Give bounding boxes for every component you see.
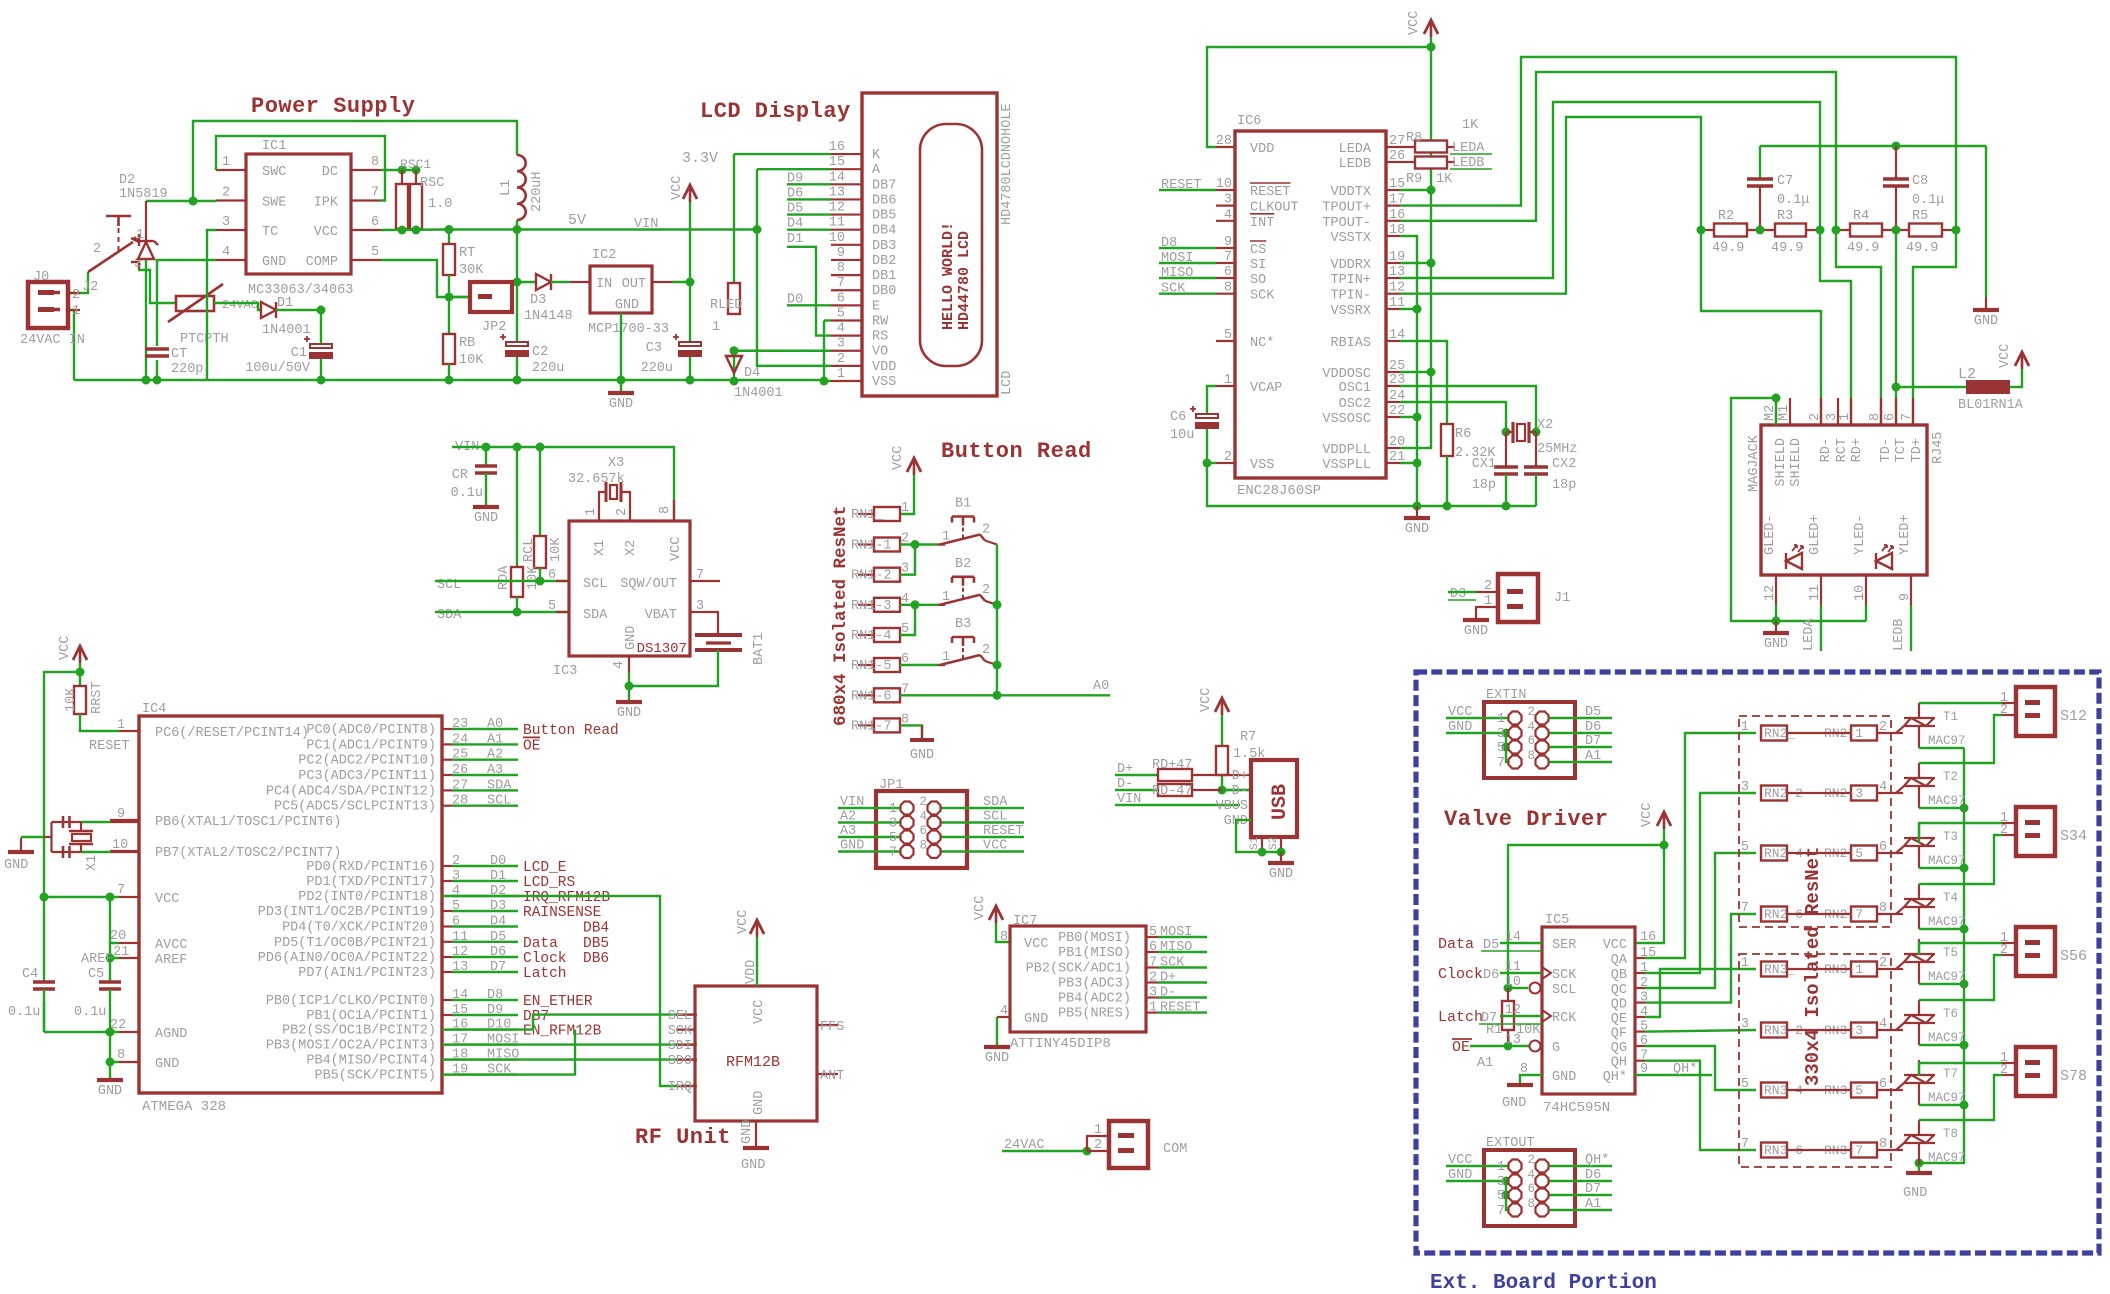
IC7 pin 2 D+ [1146, 981, 1158, 983]
resistor RN3-7 [1851, 1143, 1877, 1158]
svg-text:10K: 10K [549, 537, 564, 562]
svg-text:S1: S1 [1249, 836, 1261, 850]
svg-text:GND: GND [1269, 867, 1293, 882]
svg-text:PD0(RXD/PCINT16): PD0(RXD/PCINT16) [306, 860, 436, 875]
svg-text:VCC: VCC [1603, 938, 1627, 953]
wire RN2-7 to triac gate [1877, 913, 1903, 915]
resistor RN3-4 [1761, 1083, 1787, 1098]
wire L1 bottom [516, 220, 518, 230]
svg-text:3: 3 [889, 817, 897, 832]
transistor T8 MAC97 triac [1904, 1134, 1935, 1136]
svg-text:4: 4 [612, 661, 627, 669]
wire R5 right to TD+ pin7 [1913, 230, 1956, 425]
svg-text:MAC97: MAC97 [1928, 794, 1966, 808]
svg-text:VCC: VCC [1407, 11, 1422, 35]
IC6 pin 21 VSSPLL [1386, 462, 1400, 464]
connector S12 [2016, 687, 2055, 736]
IC7 pin 1 RESET [1146, 1011, 1158, 1013]
svg-text:PC5(ADC5/SCLPCINT13): PC5(ADC5/SCLPCINT13) [274, 800, 436, 815]
IC4 pin 9 XTAL1 [110, 819, 139, 821]
svg-text:5: 5 [1741, 1077, 1749, 1092]
svg-text:1: 1 [712, 320, 720, 335]
svg-text:1: 1 [117, 718, 125, 733]
IC4 pin 24 A1 [442, 743, 452, 745]
wire S12 pin2 to T2 [1919, 715, 2002, 763]
svg-text:1: 1 [222, 155, 230, 170]
svg-text:11: 11 [1505, 960, 1521, 975]
ground below RFM12B [743, 1146, 769, 1150]
RFM12B pin ANT [817, 1073, 838, 1075]
svg-text:2: 2 [1808, 413, 1823, 421]
svg-text:PD6(AIN0/OC0A/PCINT22): PD6(AIN0/OC0A/PCINT22) [258, 951, 436, 966]
svg-text:11: 11 [1389, 296, 1405, 311]
RFM12B pin SDO [676, 1058, 695, 1060]
resistor RN2_ [1761, 726, 1787, 741]
svg-text:8: 8 [371, 155, 379, 170]
svg-text:SDA: SDA [487, 778, 512, 793]
wire RN2-1 to triac gate [1877, 732, 1903, 734]
svg-text:MISO: MISO [1160, 940, 1192, 955]
wire RN2-3 to triac gate [1877, 792, 1903, 794]
IC7 pin 6 MISO [1146, 951, 1158, 953]
ground below RN1-7 [910, 738, 934, 742]
svg-text:3: 3 [837, 337, 845, 352]
wire pin5 COMP to feedback node [381, 260, 470, 297]
svg-text:D7: D7 [490, 960, 506, 975]
svg-text:7: 7 [1741, 1137, 1749, 1152]
wire RN3-1 to triac gate [1877, 968, 1903, 970]
svg-text:YLED-: YLED- [1853, 514, 1868, 555]
svg-text:VCC: VCC [736, 910, 751, 934]
resistor RN2-6 [1761, 907, 1787, 922]
JP1 pin 3 net A2 [838, 821, 907, 823]
IC4 pin 10 XTAL2 [110, 850, 139, 852]
svg-text:PB2(SS/OC1B/PCINT2): PB2(SS/OC1B/PCINT2) [282, 1024, 436, 1039]
capacitor CX1 18p [1505, 432, 1507, 468]
IC1 pin 1 SWC [216, 169, 246, 171]
svg-text:VCC: VCC [752, 1000, 767, 1024]
IC U RFM12B module [695, 986, 817, 1121]
svg-text:7: 7 [117, 883, 125, 898]
svg-text:QG: QG [1611, 1041, 1627, 1056]
svg-text:RB: RB [459, 336, 475, 351]
connector J1 [1476, 591, 1498, 593]
IC4 pin 26 A3 [442, 774, 452, 776]
resistor RN1-1 [858, 543, 874, 545]
wire T7 to S78 pin1 [1919, 1063, 2002, 1076]
svg-text:X1: X1 [593, 540, 608, 556]
IC6 pin 5 NC* [1216, 340, 1235, 342]
svg-text:DB1: DB1 [872, 269, 896, 284]
wire T1 MT1 to rail [1919, 747, 1964, 749]
resistor R5 49.9 [1882, 229, 1909, 231]
wire RN2-6 to RN2-7 [1787, 913, 1851, 915]
IC6 pin 9 CS [1216, 247, 1235, 249]
svg-text:DB6: DB6 [872, 193, 896, 208]
svg-text:1: 1 [72, 304, 80, 319]
crystal X2 25MHz [1502, 428, 1511, 437]
svg-text:16: 16 [829, 140, 845, 155]
svg-text:10: 10 [1505, 975, 1521, 990]
svg-text:1: 1 [1497, 712, 1505, 727]
svg-text:GND: GND [741, 1158, 765, 1173]
wire RDA to SDA row [516, 597, 518, 612]
board outline Ext Board Portion dashed border [1416, 672, 2099, 1253]
svg-text:LEDB: LEDB [1892, 619, 1907, 651]
svg-text:C3: C3 [646, 341, 662, 356]
IC6 pin 7 SI [1216, 262, 1235, 264]
connector S34 [2016, 807, 2055, 856]
svg-text:DB5: DB5 [872, 209, 896, 224]
svg-text:1: 1 [1741, 956, 1749, 971]
IC4 pin 11 D5 [442, 941, 452, 943]
wire RN3-2 to RN3-3 [1787, 1029, 1851, 1031]
svg-text:RN1-5: RN1-5 [851, 659, 892, 674]
svg-text:LEDA: LEDA [1339, 142, 1372, 157]
svg-text:QC: QC [1611, 983, 1627, 998]
resistor R4 49.9 [1836, 229, 1850, 231]
wire J0 pin2 to switch J2 [70, 272, 88, 293]
svg-text:INT: INT [1250, 216, 1274, 231]
svg-text:9: 9 [1640, 1062, 1648, 1077]
IC6 pin 19 VDDRX [1386, 262, 1400, 264]
svg-text:IC1: IC1 [262, 139, 286, 154]
svg-text:Ext. Board Portion: Ext. Board Portion [1430, 1272, 1657, 1294]
svg-text:11: 11 [829, 216, 845, 231]
IC4 pin 5 D3 [442, 910, 452, 912]
svg-text:220u: 220u [532, 361, 564, 376]
svg-text:MCP1700-33: MCP1700-33 [588, 322, 669, 337]
svg-text:D1: D1 [277, 296, 293, 311]
resistor RDA 10K [516, 447, 518, 567]
svg-text:2: 2 [222, 186, 230, 201]
wire pin8 to RSC1 [381, 169, 416, 171]
power VCC arrow for RESET [73, 646, 87, 660]
svg-text:3: 3 [1741, 1017, 1749, 1032]
wire T3 to S34 pin1 [1919, 823, 2002, 843]
svg-text:QH*: QH* [1585, 1153, 1609, 1168]
svg-text:GND: GND [910, 748, 934, 763]
svg-text:DB6: DB6 [583, 951, 609, 967]
svg-text:QF: QF [1611, 1027, 1627, 1042]
svg-text:D+: D+ [1232, 769, 1248, 784]
svg-text:3: 3 [1741, 780, 1749, 795]
capacitor C6 10u [1207, 386, 1216, 413]
svg-text:3.3V: 3.3V [682, 150, 718, 167]
IC6 pin 26 LEDB [1386, 161, 1400, 163]
wire J0 pin1 to rail [70, 310, 74, 380]
IC6 pin 25 VDDOSC [1386, 371, 1400, 373]
svg-text:VDD: VDD [744, 960, 759, 984]
svg-text:DB4: DB4 [583, 921, 609, 937]
IC6 pin 28 VDD [1216, 146, 1235, 148]
wire R3 right to RD+ pin1 [1820, 230, 1851, 425]
svg-text:A2: A2 [487, 748, 503, 763]
svg-text:7: 7 [696, 568, 704, 583]
svg-text:28: 28 [1216, 134, 1232, 149]
svg-text:VSSPLL: VSSPLL [1322, 458, 1371, 473]
IC3 pin 7 SQW/OUT [690, 580, 720, 582]
wire L2 to VCC [2010, 369, 2022, 387]
svg-text:HD4780LCDNOHOLE: HD4780LCDNOHOLE [1000, 103, 1015, 225]
wire RW to GND rail [824, 319, 831, 321]
svg-text:A3: A3 [840, 824, 856, 839]
svg-text:13: 13 [1505, 1033, 1521, 1048]
svg-text:D3: D3 [490, 899, 506, 914]
resistor R8 1K to LEDA [1400, 146, 1415, 148]
IC5 pin 9 QH* [1635, 1074, 1712, 1076]
power VCC arrow top [1424, 20, 1438, 34]
wire MISO to SDO [442, 1058, 697, 1060]
svg-text:1: 1 [889, 802, 897, 817]
svg-text:TPIN-: TPIN- [1330, 289, 1371, 304]
svg-text:8: 8 [117, 1048, 125, 1063]
svg-text:BL01RN1A: BL01RN1A [1958, 398, 2024, 413]
svg-text:IPK: IPK [314, 196, 339, 211]
svg-text:RN1-1: RN1-1 [851, 539, 892, 554]
wire RN2-2 to RN2-3 [1787, 792, 1851, 794]
IC3 pin 8 VCC stub [673, 500, 675, 521]
svg-text:B2: B2 [955, 557, 971, 572]
IC3 pin 3 VBAT [690, 611, 705, 613]
svg-text:2: 2 [1149, 971, 1157, 986]
wire X1 to ground [21, 836, 44, 838]
svg-text:QH*: QH* [1603, 1070, 1627, 1085]
svg-text:S56: S56 [2060, 948, 2087, 965]
wire TPOUT- to R4 left TD- [1400, 72, 1836, 230]
svg-text:T1: T1 [1943, 710, 1958, 724]
svg-text:0.1u: 0.1u [74, 1005, 106, 1020]
svg-text:1N4001: 1N4001 [262, 323, 311, 338]
svg-text:GND: GND [1552, 1070, 1576, 1085]
EXTIN right nets D5 D6 D7 A1 [1548, 717, 1612, 719]
IC4 pin 13 D7 [442, 971, 452, 973]
svg-text:PB6(XTAL1/TOSC1/PCINT6): PB6(XTAL1/TOSC1/PCINT6) [155, 815, 341, 830]
svg-text:D6: D6 [1585, 720, 1601, 735]
svg-text:D6: D6 [490, 945, 506, 960]
svg-text:1: 1 [1497, 1160, 1505, 1175]
svg-text:QH*: QH* [1673, 1062, 1697, 1077]
wire M2 to shield ground loop [1775, 398, 1777, 425]
svg-text:PB4(MISO/PCINT4): PB4(MISO/PCINT4) [306, 1054, 436, 1069]
svg-text:SCK: SCK [1250, 289, 1275, 304]
svg-text:3: 3 [1149, 986, 1157, 1001]
wire varistor to D1 [214, 303, 261, 310]
svg-text:T3: T3 [1943, 830, 1958, 844]
IC4 pin 12 D6 [442, 956, 452, 958]
wire VIN drop to D3 node [516, 230, 518, 283]
IC4 pin 3 D1 [442, 880, 452, 882]
IC4 pin 2 D0 [442, 865, 452, 867]
wire IC2 OUT to 3.3V node [672, 281, 690, 283]
svg-text:GLED-: GLED- [1763, 514, 1778, 555]
ground below CR [485, 473, 487, 505]
svg-text:7: 7 [1497, 756, 1505, 771]
EXTOUT right nets QH* D6 D7 A1 [1548, 1165, 1612, 1167]
svg-text:VDDOSC: VDDOSC [1322, 367, 1371, 382]
svg-text:T2: T2 [1943, 770, 1958, 784]
resistor R1 10K [1507, 988, 1509, 1001]
svg-text:6: 6 [1527, 1182, 1535, 1196]
svg-text:RESET: RESET [983, 824, 1024, 839]
power 3.3V VCC arrow [689, 200, 691, 282]
wire pin1-pin7 loop [216, 136, 385, 201]
svg-text:6: 6 [371, 215, 379, 230]
connector USB [1251, 760, 1297, 837]
svg-text:RD-: RD- [1819, 438, 1834, 462]
svg-text:PB0(ICP1/CLKO/PCINT0): PB0(ICP1/CLKO/PCINT0) [266, 994, 436, 1009]
IC6 pin 11 VSSRX [1386, 308, 1400, 310]
svg-text:LCD Display: LCD Display [700, 99, 851, 124]
resnet RN3 dashed box [1739, 954, 1891, 1167]
svg-text:4: 4 [1224, 208, 1232, 223]
JP1 pin 2 net SDA [934, 807, 1024, 809]
diode D4 1N4001 [733, 351, 735, 381]
svg-text:4: 4 [919, 810, 927, 824]
IC U IC3 DS1307 [569, 521, 690, 656]
svg-text:RCK: RCK [1552, 1011, 1577, 1026]
svg-text:GND: GND [840, 839, 864, 854]
svg-text:5V: 5V [568, 212, 586, 229]
resistor RN3-6 [1761, 1143, 1787, 1158]
wire QF to RN3 row2 [1645, 1030, 1756, 1032]
svg-text:D1: D1 [490, 869, 506, 884]
svg-text:PD1(TXD/PCINT17): PD1(TXD/PCINT17) [306, 875, 436, 890]
svg-text:J1: J1 [1554, 591, 1570, 606]
IC6 pin 24 OSC2 [1386, 401, 1400, 403]
wire GND rail bottom [74, 379, 824, 381]
battery BAT1 [695, 633, 742, 637]
svg-text:VIN: VIN [840, 795, 864, 810]
svg-text:1: 1 [942, 650, 950, 665]
svg-text:MAC97: MAC97 [1928, 854, 1966, 868]
svg-text:AREF: AREF [81, 952, 113, 967]
svg-text:DS1307: DS1307 [637, 641, 687, 657]
IC6 pin 18 VSSTX [1386, 235, 1400, 237]
power VCC for IC7 [989, 906, 1003, 920]
led GLED inside magjack [1786, 553, 1802, 569]
resistor RT 30K [448, 230, 450, 245]
IC6 pin 17 TPOUT+ [1386, 205, 1400, 207]
svg-text:VSSTX: VSSTX [1330, 231, 1371, 246]
svg-text:OE: OE [523, 738, 540, 754]
power VCC for IC5 [1657, 812, 1671, 826]
wire GLED+ LEDA [1820, 605, 1822, 651]
capacitor C8 0.1u [1895, 146, 1897, 180]
svg-text:PC4(ADC4/SDA/PCINT12): PC4(ADC4/SDA/PCINT12) [266, 784, 436, 799]
wire top loop L1/SWE [193, 121, 517, 201]
svg-text:6: 6 [1224, 265, 1232, 280]
svg-text:14: 14 [829, 170, 845, 185]
LCD pin 10 DB3 [831, 244, 862, 246]
MAGJACK pin M2 [1775, 398, 1777, 425]
wire RSC1 bottom to VCC pin6 and 5V rail [381, 228, 449, 231]
svg-text:GND: GND [98, 1084, 122, 1099]
svg-text:D2: D2 [119, 173, 135, 188]
svg-text:SCL: SCL [983, 810, 1007, 825]
IC1 pin 6 VCC [351, 229, 381, 231]
RFM12B pin SCK [676, 1028, 695, 1030]
svg-text:1N5819: 1N5819 [119, 187, 168, 202]
wire J1 pin1 to GND [1476, 607, 1498, 618]
svg-text:22: 22 [110, 1018, 126, 1033]
svg-text:49.9: 49.9 [1906, 241, 1938, 256]
svg-text:VCC: VCC [58, 636, 73, 660]
svg-text:1: 1 [901, 501, 909, 516]
resistor RLED 1 [728, 283, 740, 314]
svg-text:A2: A2 [840, 810, 856, 825]
svg-text:1.0: 1.0 [428, 197, 452, 212]
wire EN_RFM12B to SEL [442, 1015, 697, 1030]
wire RN1-7 to GND [900, 725, 922, 738]
MAGJACK pin 9 YLED+ [1910, 575, 1912, 605]
svg-text:16: 16 [1640, 930, 1656, 945]
resistor RN1-2 [858, 574, 874, 576]
svg-text:2: 2 [2000, 703, 2008, 718]
svg-text:TD+: TD+ [1910, 438, 1925, 462]
svg-text:VDDRX: VDDRX [1330, 258, 1371, 273]
wire RCL to SCL row [539, 568, 541, 581]
svg-text:D7: D7 [1585, 734, 1601, 749]
svg-text:YLED+: YLED+ [1898, 514, 1913, 555]
svg-text:220uH: 220uH [530, 171, 545, 212]
wire VBAT to BAT1 [705, 612, 718, 633]
svg-text:X2: X2 [624, 540, 639, 556]
svg-text:C6: C6 [1170, 410, 1186, 425]
svg-text:8: 8 [1224, 281, 1232, 296]
wire R2 left to RD- pin2 [1701, 230, 1821, 425]
resistor RN3-2 [1761, 1023, 1787, 1038]
wire TPIN- to R2 left RD- [1400, 117, 1701, 294]
wire QC to RN2 row3 [1645, 853, 1756, 988]
wire T2 MT1 to rail [1919, 807, 1964, 809]
svg-text:GND: GND [4, 858, 28, 873]
svg-text:2: 2 [982, 643, 990, 658]
resistor R9 1K to LEDB [1400, 161, 1415, 163]
wire QA to RN2 row1 [1645, 733, 1756, 958]
svg-text:R8: R8 [1406, 131, 1422, 146]
IC5 pin 8 GND [1520, 1075, 1542, 1083]
svg-text:5: 5 [1224, 328, 1232, 343]
svg-text:SCK: SCK [1160, 956, 1185, 971]
transistor T7 MAC97 triac [1904, 1074, 1935, 1076]
MAGJACK pin 3 [1837, 398, 1839, 425]
svg-text:8: 8 [1868, 413, 1883, 421]
wire D- junction [1222, 789, 1251, 791]
svg-text:30K: 30K [459, 263, 484, 278]
resistor RN2-4 [1761, 846, 1787, 861]
svg-text:OSC1: OSC1 [1339, 381, 1371, 396]
svg-text:R6: R6 [1455, 427, 1471, 442]
svg-text:CR: CR [452, 468, 468, 483]
svg-text:GND: GND [617, 706, 641, 721]
resistor RN2-5 [1851, 846, 1877, 861]
svg-text:R7: R7 [1240, 730, 1256, 745]
LCD pin 2 VDD [831, 365, 862, 367]
svg-text:19: 19 [1389, 250, 1405, 265]
resistor RN3-1 [1851, 962, 1877, 977]
svg-text:PB1(MISO): PB1(MISO) [1058, 946, 1131, 961]
svg-text:RF Unit: RF Unit [635, 1125, 731, 1150]
crystal X1 [81, 821, 111, 823]
svg-text:2: 2 [615, 508, 630, 516]
svg-text:3: 3 [1497, 1175, 1505, 1190]
svg-text:RD-47: RD-47 [1152, 784, 1193, 799]
svg-text:HD44780 LCD: HD44780 LCD [956, 231, 973, 330]
wire T7 MT1 to rail [1919, 1104, 1964, 1106]
svg-text:AREF: AREF [155, 953, 187, 968]
svg-text:VCC: VCC [973, 896, 988, 920]
